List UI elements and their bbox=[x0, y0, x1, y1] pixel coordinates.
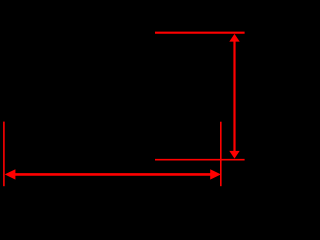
horizontal dimension arrowhead right bbox=[210, 169, 221, 179]
vertical dimension arrowhead down bbox=[229, 151, 239, 159]
lower reference line of vertical dimension bbox=[155, 159, 245, 161]
horizontal dimension arrow shaft bbox=[9, 173, 216, 176]
horizontal dimension arrowhead left bbox=[5, 169, 16, 179]
left extension line bbox=[3, 122, 5, 187]
vertical dimension arrowhead up bbox=[229, 34, 239, 42]
top reference line bbox=[155, 32, 245, 34]
vertical dimension arrow shaft bbox=[233, 38, 235, 154]
right extension line bbox=[220, 122, 222, 187]
